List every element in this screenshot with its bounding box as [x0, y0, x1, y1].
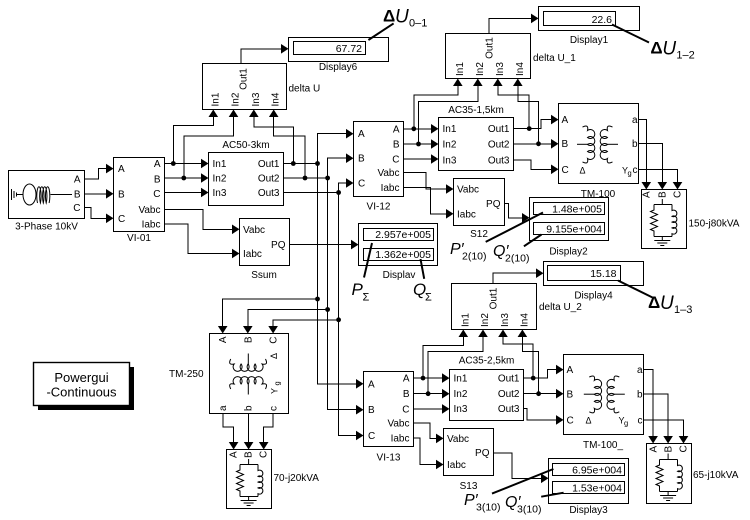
svg-text:1.53e+004: 1.53e+004 — [572, 483, 622, 495]
svg-text:Δ: Δ — [269, 353, 279, 359]
svg-text:C: C — [358, 179, 365, 190]
svg-text:VI-13: VI-13 — [377, 453, 401, 464]
wire VI-13 C to AC35-2,5km In3 — [414, 408, 444, 410]
wire AC50-3km Out2 bus — [284, 177, 328, 179]
wire Out2 bus down to VI-13 B — [328, 178, 357, 410]
wire S12 PQ to Display2 — [505, 204, 524, 218]
wire VI-01 C to AC50-3km In3 — [165, 192, 203, 194]
svg-text:B: B — [368, 405, 375, 416]
svg-text:B: B — [243, 336, 254, 343]
block VI-13 measurement — [364, 372, 414, 447]
svg-text:Vabc: Vabc — [447, 434, 469, 445]
svg-text:C: C — [402, 404, 409, 415]
svg-text:PQ: PQ — [475, 448, 490, 459]
svg-text:1.48e+005: 1.48e+005 — [552, 204, 602, 216]
node junction bus C to TM-250 — [336, 317, 341, 322]
svg-text:In2: In2 — [443, 139, 457, 150]
svg-text:C: C — [562, 165, 569, 176]
wire VI-12 A to AC35-1,5km In1 — [404, 128, 433, 130]
wire source A to VI-01 A — [85, 169, 108, 179]
wire VI-13 A to AC35-2,5km In1 — [414, 377, 444, 379]
svg-text:Out1: Out1 — [485, 37, 496, 59]
svg-text:9.155e+004: 9.155e+004 — [546, 224, 602, 236]
svg-text:Out2: Out2 — [488, 139, 510, 150]
svg-text:A: A — [649, 446, 660, 453]
wire riser to delta U_2 In3 — [503, 332, 533, 378]
svg-text:Iabc: Iabc — [381, 183, 400, 194]
svg-text:Iabc: Iabc — [243, 249, 262, 260]
svg-text:Vabc: Vabc — [243, 225, 265, 236]
wire bus B to TM-250 B — [248, 310, 328, 327]
svg-text:Display3: Display3 — [569, 505, 608, 516]
svg-text:VI-12: VI-12 — [367, 202, 391, 213]
block TM-250 transformer — [210, 334, 289, 414]
wire Ssum PQ to Display — [290, 244, 353, 246]
svg-text:Out3: Out3 — [488, 156, 510, 167]
svg-text:Vabc: Vabc — [377, 168, 399, 179]
wire AC35-2,5km Out3 to TM-100_ C — [524, 409, 558, 420]
svg-text:a: a — [637, 365, 643, 376]
svg-text:Out1: Out1 — [498, 374, 520, 385]
svg-text:In3: In3 — [495, 62, 506, 76]
svg-text:C: C — [259, 451, 270, 458]
svg-text:B: B — [154, 174, 161, 185]
block 65-j10kVA load — [647, 444, 692, 504]
svg-text:a: a — [218, 405, 229, 411]
svg-text:A: A — [567, 365, 574, 376]
block Ssum power measurement — [240, 219, 290, 266]
svg-text:In4: In4 — [515, 62, 526, 76]
block 150-j80kVA load — [642, 190, 687, 249]
svg-text:TM-100_: TM-100_ — [583, 440, 623, 451]
wire source B to VI-01 B — [85, 193, 108, 195]
node junction Out1 bus split — [315, 161, 320, 166]
svg-text:Σ: Σ — [425, 292, 432, 304]
wire Out3 up to VI-12 C — [339, 183, 347, 193]
wire VI-13 Iabc to S13 Iabc — [414, 438, 438, 465]
node junction on Out2 for delta U In4 — [303, 176, 308, 181]
svg-text:2(10): 2(10) — [505, 253, 530, 265]
svg-text:Display4: Display4 — [574, 291, 613, 302]
node junction bus A to TM-250 — [315, 297, 320, 302]
wire delta U_2 Out1 to Display4 — [493, 273, 537, 283]
svg-text:1–3: 1–3 — [674, 304, 692, 316]
svg-text:A: A — [393, 124, 400, 135]
svg-text:C: C — [153, 189, 160, 200]
svg-text:Σ: Σ — [363, 292, 370, 304]
svg-text:U: U — [395, 7, 409, 28]
svg-text:U: U — [660, 293, 674, 314]
wire TM-100 c to load C — [639, 169, 678, 182]
annotation line P3 — [492, 469, 553, 494]
svg-text:Δ: Δ — [383, 7, 395, 26]
node junction on Out1 for delta U_2 In3 — [531, 376, 536, 381]
block delta U_2 subsystem — [452, 284, 537, 330]
svg-text:A: A — [642, 191, 653, 198]
svg-text:In1: In1 — [460, 313, 471, 327]
svg-text:b: b — [632, 139, 638, 150]
wire Out3 bus down to VI-13 C — [339, 193, 357, 436]
svg-text:Display1: Display1 — [570, 35, 609, 46]
svg-text:Δ: Δ — [580, 166, 586, 176]
svg-text:delta U_1: delta U_1 — [533, 53, 576, 64]
annotation line P2 — [486, 213, 543, 242]
svg-text:150-j80kVA: 150-j80kVA — [689, 219, 740, 230]
svg-text:3(10): 3(10) — [517, 504, 542, 516]
node junction on Out2 for delta U_1 In4 — [536, 141, 541, 146]
svg-text:In2: In2 — [231, 92, 242, 106]
svg-text:Out3: Out3 — [498, 404, 520, 415]
svg-text:In3: In3 — [454, 404, 468, 415]
block S13 power measurement — [444, 429, 494, 476]
node junction on Out1 for delta U_1 In3 — [527, 126, 532, 131]
svg-text:B: B — [562, 139, 569, 150]
annotation line to Display6 — [368, 23, 393, 40]
wire riser to delta U_1 In4 — [518, 81, 539, 144]
block Display1 — [539, 7, 640, 31]
wire VI-01 Vabc to Ssum Vabc — [165, 209, 234, 229]
svg-text:A: A — [368, 379, 375, 390]
svg-text:B: B — [393, 140, 400, 151]
svg-text:In2: In2 — [480, 313, 491, 327]
svg-text:70-j20kVA: 70-j20kVA — [274, 473, 320, 484]
wire TM-100 b to load B — [639, 144, 663, 183]
block TM-100_ transformer — [564, 355, 644, 435]
svg-text:A: A — [562, 115, 569, 126]
svg-text:PQ: PQ — [486, 199, 501, 210]
svg-text:In3: In3 — [443, 156, 457, 167]
svg-text:Out1: Out1 — [239, 68, 250, 90]
node junction Out3 bus split — [336, 190, 341, 195]
svg-text:delta U_2: delta U_2 — [539, 302, 582, 313]
svg-text:In3: In3 — [213, 188, 227, 199]
svg-text:C: C — [392, 155, 399, 166]
wire VI-01 A to AC50-3km In1 — [165, 163, 203, 165]
wire TM-100_ a to load A — [644, 370, 654, 436]
block Display2 — [530, 198, 609, 241]
svg-text:B: B — [403, 389, 410, 400]
svg-text:Vabc: Vabc — [387, 419, 409, 430]
block Display6 — [289, 38, 389, 62]
wire S13 PQ to Display3 — [494, 453, 543, 479]
svg-text:Out3: Out3 — [258, 188, 280, 199]
wire TM-100_ c to load C — [644, 420, 684, 436]
node junction Out2 bus split — [325, 176, 330, 181]
svg-text:b: b — [637, 389, 643, 400]
block delta U_1 subsystem — [446, 34, 531, 79]
svg-text:In3: In3 — [500, 313, 511, 327]
svg-text:In1: In1 — [210, 92, 221, 106]
svg-text:AC35-2,5km: AC35-2,5km — [459, 356, 515, 367]
svg-text:Iabc: Iabc — [391, 434, 410, 445]
svg-text:22.6: 22.6 — [592, 14, 613, 26]
svg-text:15.18: 15.18 — [590, 268, 616, 280]
svg-text:In2: In2 — [213, 174, 227, 185]
svg-text:B: B — [358, 154, 365, 165]
svg-text:67.72: 67.72 — [336, 43, 362, 55]
wire AC50-3km Out1 bus — [284, 163, 318, 165]
svg-text:Out1: Out1 — [489, 287, 500, 309]
node junction B3 — [426, 391, 431, 396]
svg-text:Out2: Out2 — [498, 389, 520, 400]
annotation line from Display4 — [618, 281, 653, 298]
wire TM-250 a to load A — [223, 414, 234, 443]
svg-text:Out1: Out1 — [488, 124, 510, 135]
wire Out2 up to VI-12 B — [328, 158, 347, 178]
node junction on Out1 for delta U In3 — [291, 161, 296, 166]
wire VI-12 C to AC35-1,5km In3 — [404, 158, 433, 160]
wire VI-12 Vabc to S12 Vabc — [404, 173, 448, 189]
svg-text:In3: In3 — [251, 92, 262, 106]
svg-text:C: C — [118, 214, 125, 225]
svg-text:1–2: 1–2 — [676, 50, 694, 62]
wire VI-13 Vabc to S13 Vabc — [414, 423, 438, 438]
block Display sum PQ — [359, 224, 438, 266]
wire VI-01 Iabc to Ssum Iabc — [165, 224, 234, 253]
annotation line from Display1 — [612, 25, 649, 43]
svg-text:g: g — [273, 381, 282, 385]
block S12 power measurement — [454, 179, 505, 226]
svg-text:Vabc: Vabc — [457, 185, 479, 196]
svg-text:B: B — [567, 389, 574, 400]
block delta U subsystem — [203, 64, 287, 110]
svg-text:B: B — [118, 189, 125, 200]
svg-text:b: b — [243, 405, 254, 411]
wire VI-12 Iabc to S12 Iabc — [404, 187, 448, 214]
svg-text:c: c — [269, 406, 280, 411]
svg-text:3-Phase 10kV: 3-Phase 10kV — [15, 222, 78, 233]
wire riser to delta U In4 — [274, 112, 305, 178]
svg-text:C: C — [73, 203, 80, 214]
node junction B2 — [416, 142, 421, 147]
wire riser to delta U_2 In4 — [522, 332, 538, 394]
svg-text:65-j10kVA: 65-j10kVA — [693, 470, 739, 481]
wire bus A to TM-250 A — [223, 299, 318, 326]
svg-text:1.362e+005: 1.362e+005 — [375, 249, 431, 261]
svg-text:In1: In1 — [454, 374, 468, 385]
wire AC35-1,5km Out2 to TM-100 B — [514, 143, 553, 145]
svg-text:In1: In1 — [443, 124, 457, 135]
svg-text:B: B — [658, 191, 669, 198]
wire TM-100 a to load A — [639, 120, 647, 182]
wire AC35-1,5km Out1 to TM-100 A — [514, 120, 553, 129]
svg-text:In1: In1 — [455, 62, 466, 76]
svg-text:Vabc: Vabc — [138, 205, 160, 216]
svg-text:Iabc: Iabc — [457, 210, 476, 221]
block 3-Phase 10kV source — [9, 171, 85, 219]
svg-text:2.957e+005: 2.957e+005 — [375, 229, 431, 241]
svg-text:Out1: Out1 — [258, 159, 280, 170]
wire Out1 up to VI-12 A — [318, 134, 348, 164]
svg-text:Powergui: Powergui — [54, 370, 108, 385]
wire delta U_1 Out1 to Display1 — [489, 18, 532, 33]
wire TM-250 b to load B — [248, 414, 250, 443]
wire riser to delta U In3 — [254, 112, 293, 164]
wire riser to delta U In2 — [184, 112, 234, 178]
wire riser to delta U_1 In2 — [419, 81, 478, 144]
wire VI-01 B to AC50-3km In2 — [165, 177, 203, 179]
svg-text:Display2: Display2 — [549, 247, 588, 258]
wire Out1 bus down to VI-13 A — [318, 164, 358, 384]
block AC50-3km line — [209, 153, 284, 206]
svg-text:g: g — [628, 169, 632, 178]
svg-text:A: A — [403, 374, 410, 385]
block Display4 — [544, 262, 644, 286]
svg-text:Out2: Out2 — [258, 174, 280, 185]
node junction on Out2 for delta U_2 In4 — [536, 391, 541, 396]
svg-text:A: A — [154, 159, 161, 170]
svg-text:AC35-1,5km: AC35-1,5km — [448, 105, 504, 116]
svg-text:Δ: Δ — [650, 39, 662, 58]
wire riser to delta U_1 In3 — [498, 81, 529, 129]
node junction bus B to TM-250 — [325, 307, 330, 312]
block Display3 — [549, 459, 629, 504]
block VI-12 measurement — [354, 122, 404, 197]
svg-text:c: c — [638, 415, 643, 426]
svg-text:In1: In1 — [213, 159, 227, 170]
annotation line Q2 — [524, 235, 542, 247]
node junction A1 — [171, 161, 176, 166]
svg-text:B: B — [74, 189, 81, 200]
svg-text:C: C — [269, 337, 280, 344]
wire source C to VI-01 C — [85, 208, 108, 219]
annotation line Q sum — [421, 259, 425, 279]
svg-text:U: U — [662, 39, 676, 60]
svg-text:PQ: PQ — [271, 240, 286, 251]
svg-text:g: g — [624, 419, 628, 428]
svg-text:C: C — [673, 191, 684, 198]
block AC35-2,5km line — [450, 370, 524, 421]
wire riser to delta U_1 In1 — [414, 81, 458, 129]
wire TM-250 c to load C — [264, 414, 273, 443]
block Powergui — [38, 367, 134, 410]
svg-text:delta U: delta U — [289, 84, 321, 95]
svg-text:0–1: 0–1 — [409, 18, 427, 30]
svg-text:C: C — [679, 445, 690, 452]
svg-text:In2: In2 — [475, 62, 486, 76]
svg-text:Y: Y — [270, 388, 280, 394]
svg-text:Δ: Δ — [586, 416, 592, 426]
svg-text:S12: S12 — [470, 229, 488, 240]
svg-text:B: B — [664, 446, 675, 453]
block AC35-1,5km line — [439, 118, 514, 171]
svg-text:A: A — [74, 175, 81, 186]
wire VI-12 B to AC35-1,5km In2 — [404, 143, 433, 145]
svg-text:A: A — [229, 451, 240, 458]
annotation line Q3 — [541, 493, 563, 497]
svg-text:-Continuous: -Continuous — [46, 385, 117, 400]
svg-text:Iabc: Iabc — [447, 460, 466, 471]
svg-text:A: A — [118, 164, 125, 175]
svg-text:VI-01: VI-01 — [127, 233, 151, 244]
svg-text:3(10): 3(10) — [476, 502, 501, 514]
block 70-j20kVA load — [227, 450, 272, 509]
svg-text:A: A — [358, 129, 365, 140]
svg-text:Ssum: Ssum — [251, 270, 277, 281]
svg-text:S13: S13 — [460, 481, 478, 492]
svg-text:In4: In4 — [271, 92, 282, 106]
svg-text:TM-250: TM-250 — [169, 369, 204, 380]
svg-text:a: a — [632, 115, 638, 126]
svg-text:2(10): 2(10) — [462, 251, 487, 263]
svg-text:Display6: Display6 — [319, 62, 358, 73]
wire riser to delta U In1 — [173, 112, 213, 164]
svg-text:AC50-3km: AC50-3km — [222, 140, 269, 151]
node junction B1 — [181, 176, 186, 181]
svg-text:C: C — [368, 431, 375, 442]
wire VI-13 B to AC35-2,5km In2 — [414, 393, 444, 395]
svg-text:c: c — [633, 165, 638, 176]
wire AC35-2,5km Out1 to TM-100_ A — [524, 370, 558, 379]
wire delta U Out1 to Display6 — [241, 49, 282, 64]
wire riser to delta U_2 In2 — [428, 332, 483, 394]
wire TM-100_ b to load B — [644, 394, 669, 436]
block VI-01 three-phase VI measurement — [114, 158, 165, 232]
svg-text:6.95e+004: 6.95e+004 — [572, 465, 622, 477]
wire riser to delta U_2 In1 — [423, 332, 463, 378]
wire AC50-3km Out3 bus — [284, 192, 339, 194]
node junction A2 — [411, 126, 416, 131]
svg-text:C: C — [567, 415, 574, 426]
svg-text:A: A — [218, 336, 229, 343]
svg-text:In2: In2 — [454, 389, 468, 400]
svg-text:Iabc: Iabc — [142, 220, 161, 231]
svg-text:In4: In4 — [519, 313, 530, 327]
wire AC35-2,5km Out2 to TM-100_ B — [524, 393, 558, 395]
svg-text:B: B — [244, 451, 255, 458]
wire AC35-1,5km Out3 to TM-100 C — [514, 160, 553, 169]
svg-text:Displav: Displav — [383, 270, 416, 281]
wire bus C to TM-250 C — [273, 320, 339, 326]
annotation line P sum — [364, 243, 372, 278]
node junction A3 — [421, 376, 426, 381]
